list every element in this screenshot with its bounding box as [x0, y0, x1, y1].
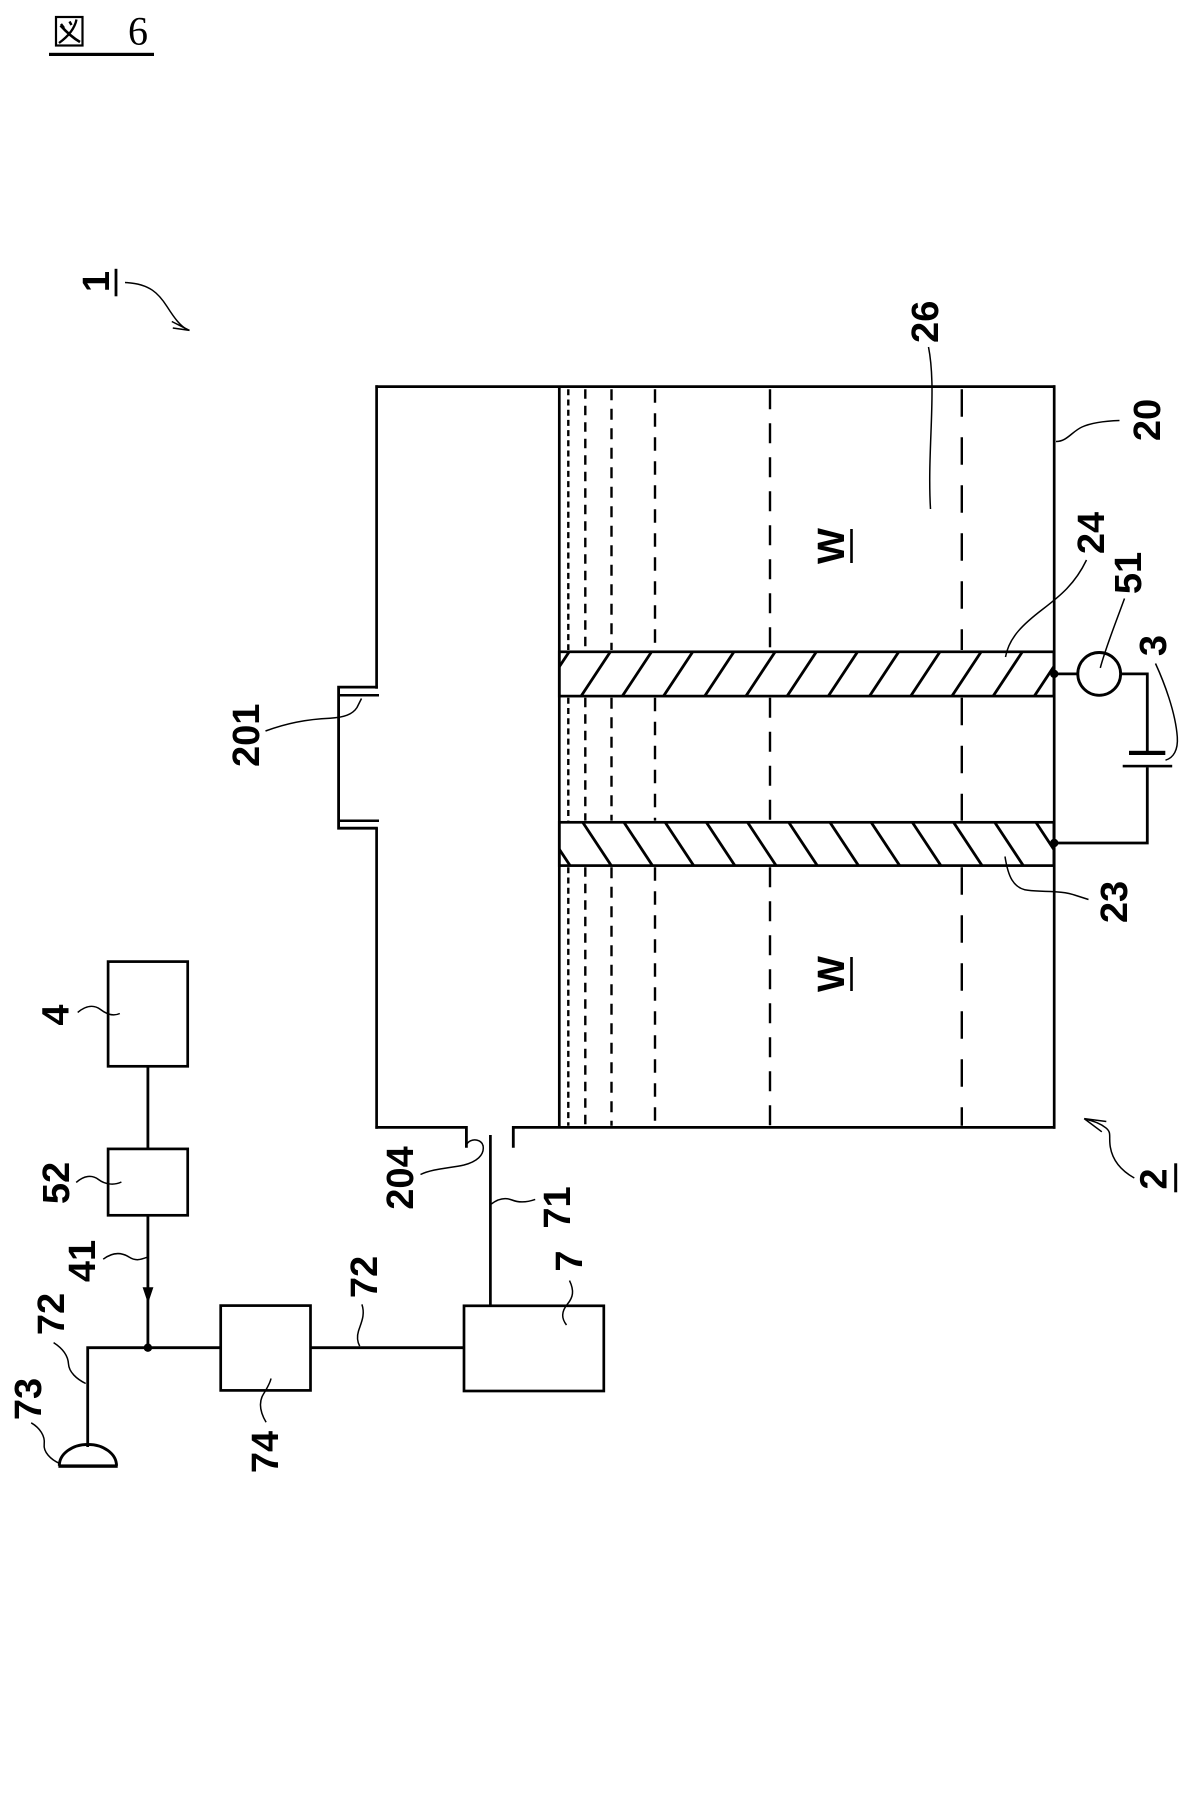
- svg-text:23: 23: [1094, 881, 1136, 923]
- chamber right wall: [1053, 385, 1056, 1128]
- port 201 outline: [339, 687, 378, 828]
- ground symbol 73 dome: [59, 1444, 116, 1465]
- leader 71: [491, 1199, 535, 1204]
- svg-text:41: 41: [62, 1240, 104, 1282]
- leader 204: [421, 1140, 484, 1175]
- svg-text:72: 72: [344, 1256, 386, 1298]
- svg-text:201: 201: [226, 704, 268, 767]
- node junction dot at electrode 23: [1050, 839, 1058, 847]
- leader arrow from label 1: [125, 283, 190, 331]
- port 201 inner flange lines: [339, 694, 379, 697]
- leader 73: [31, 1423, 60, 1464]
- wire box4 to box52: [146, 1066, 149, 1149]
- chamber left wall lower segment: [375, 828, 378, 1129]
- chamber left wall upper segment: [375, 385, 378, 689]
- wire battery bottom to node23: [1054, 767, 1147, 843]
- leader 74: [260, 1379, 271, 1423]
- wire 72 box74 to box7: [311, 1346, 465, 1349]
- svg-text:W: W: [811, 528, 853, 564]
- svg-text:73: 73: [8, 1378, 50, 1420]
- electrode 24 hatched bar: [538, 649, 1065, 699]
- svg-text:51: 51: [1108, 552, 1150, 594]
- chamber bottom wall left segment with exhaust lip: [375, 1127, 466, 1147]
- svg-text:52: 52: [36, 1162, 78, 1204]
- svg-text:6: 6: [128, 9, 148, 54]
- chamber bottom wall right segment with exhaust lip: [513, 1127, 1055, 1147]
- chamber 2 top wall: [375, 385, 1055, 388]
- svg-text:204: 204: [380, 1146, 422, 1209]
- svg-text:74: 74: [245, 1431, 287, 1473]
- label W lower with underline: [811, 956, 853, 992]
- ammeter circle 51: [1078, 653, 1121, 696]
- leader 20: [1056, 421, 1120, 442]
- svg-text:2: 2: [1134, 1168, 1176, 1189]
- figure title underline: [49, 53, 154, 56]
- leader 4: [78, 1006, 120, 1015]
- leader 7: [563, 1281, 573, 1325]
- label W upper with underline: [811, 528, 853, 564]
- wire ammeter to battery top: [1121, 674, 1148, 751]
- leader 41: [103, 1254, 147, 1260]
- leader arrow 2: [1084, 1119, 1134, 1178]
- leader 72 left: [54, 1343, 86, 1384]
- figure title box glyph 図: [56, 17, 83, 46]
- node junction dot at electrode 24: [1050, 670, 1058, 678]
- svg-text:7: 7: [549, 1250, 591, 1271]
- battery 3 positive plate (long thin): [1123, 765, 1173, 768]
- svg-text:24: 24: [1071, 512, 1113, 554]
- svg-text:W: W: [811, 956, 853, 992]
- box 52 (valve): [108, 1149, 188, 1215]
- wafer boat dashed lines W region: [568, 389, 962, 1126]
- leader 72 right: [357, 1304, 363, 1346]
- partition line (boat left edge): [558, 386, 561, 1127]
- wire junction to box74: [148, 1346, 221, 1349]
- svg-text:72: 72: [31, 1293, 73, 1335]
- leader 24: [1006, 560, 1087, 657]
- svg-text:3: 3: [1133, 635, 1175, 656]
- electrode 23 hatched bar: [540, 820, 1067, 870]
- wire 41 box52 to junction with arrowhead: [146, 1215, 149, 1347]
- wire node24 to ammeter 51: [1054, 673, 1078, 676]
- svg-text:4: 4: [35, 1004, 77, 1025]
- box 4 (gas source): [108, 962, 188, 1067]
- junction dot 41/72: [144, 1344, 152, 1352]
- label 1 (apparatus) with underline: [76, 269, 118, 297]
- svg-text:71: 71: [537, 1186, 579, 1228]
- leader 23: [1005, 857, 1089, 900]
- svg-text:1: 1: [76, 271, 118, 292]
- leader 52: [76, 1176, 121, 1184]
- box 74 (valve): [221, 1306, 311, 1391]
- pipe 71 from chamber to box7: [489, 1135, 492, 1306]
- label 2 with underline: [1134, 1163, 1178, 1192]
- leader 26: [929, 347, 933, 509]
- wire 72 junction to ground corner: [88, 1348, 148, 1447]
- svg-text:20: 20: [1127, 399, 1169, 441]
- leader 3: [1156, 664, 1178, 761]
- svg-text:26: 26: [905, 301, 947, 343]
- battery 3 negative plate (short thick): [1129, 751, 1165, 755]
- leader 201: [266, 699, 362, 732]
- leader 51: [1100, 599, 1124, 668]
- box 7 (exhaust pump): [464, 1306, 604, 1391]
